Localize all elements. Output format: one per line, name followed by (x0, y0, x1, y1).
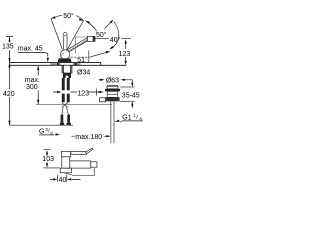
svg-text:4: 4 (139, 116, 142, 122)
svg-text:420: 420 (3, 91, 15, 98)
svg-text:G: G (39, 129, 44, 136)
svg-text:300: 300 (26, 84, 38, 91)
svg-text:max. 45: max. 45 (18, 46, 43, 53)
svg-text:Ø63: Ø63 (106, 77, 119, 84)
svg-text:40°: 40° (110, 36, 121, 44)
svg-text:40: 40 (59, 177, 67, 184)
svg-text:123: 123 (77, 90, 89, 97)
svg-text:max.180: max.180 (75, 134, 102, 141)
svg-text:123: 123 (119, 51, 131, 58)
svg-text:max.: max. (25, 77, 40, 84)
svg-text:103: 103 (42, 156, 54, 163)
svg-text:35-45: 35-45 (122, 93, 140, 100)
svg-text:8: 8 (50, 131, 53, 136)
svg-text:51: 51 (77, 57, 85, 64)
svg-text:G1: G1 (122, 115, 131, 122)
svg-text:50°: 50° (63, 12, 74, 20)
svg-text:Ø34: Ø34 (77, 70, 90, 77)
svg-text:135: 135 (2, 44, 14, 51)
svg-text:50°: 50° (96, 31, 107, 39)
svg-text:/: / (136, 115, 138, 121)
